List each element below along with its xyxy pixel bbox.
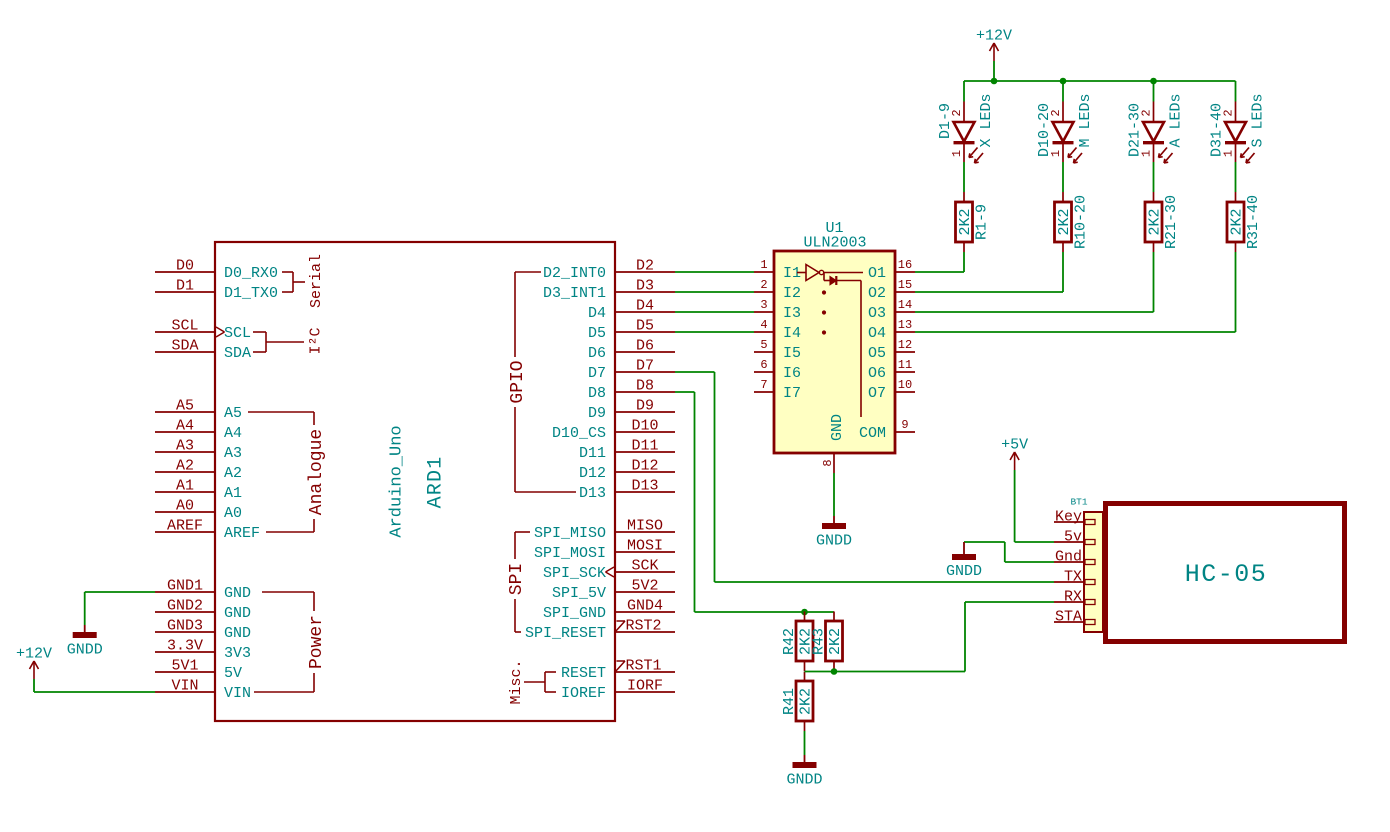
svg-text:D5: D5 (588, 325, 606, 342)
svg-text:SCL: SCL (171, 318, 198, 335)
svg-text:HC-05: HC-05 (1185, 560, 1268, 589)
svg-text:R21-30: R21-30 (1163, 195, 1180, 249)
svg-text:BT1: BT1 (1070, 497, 1087, 508)
svg-text:RESET: RESET (561, 665, 606, 682)
svg-text:A5: A5 (224, 405, 242, 422)
svg-text:5v: 5v (1064, 529, 1082, 546)
svg-text:GPIO: GPIO (508, 360, 528, 403)
svg-text:2K2: 2K2 (827, 628, 844, 655)
svg-text:D7: D7 (588, 365, 606, 382)
svg-text:R31-40: R31-40 (1245, 195, 1262, 249)
svg-text:+12V: +12V (16, 646, 52, 663)
svg-text:D1-9: D1-9 (937, 103, 954, 139)
svg-text:D3: D3 (636, 278, 654, 295)
svg-text:D4: D4 (636, 298, 654, 315)
svg-text:D0_RX0: D0_RX0 (224, 265, 278, 282)
svg-text:A4: A4 (224, 425, 242, 442)
svg-text:SCK: SCK (631, 558, 658, 575)
svg-text:2K2: 2K2 (797, 688, 814, 715)
svg-text:I²C: I²C (307, 327, 324, 354)
svg-text:A1: A1 (224, 485, 242, 502)
svg-text:A0: A0 (176, 498, 194, 515)
svg-text:D9: D9 (588, 405, 606, 422)
svg-text:VIN: VIN (224, 685, 251, 702)
svg-text:A5: A5 (176, 398, 194, 415)
svg-text:SPI_MISO: SPI_MISO (534, 525, 606, 542)
svg-text:SPI_5V: SPI_5V (552, 585, 606, 602)
svg-text:6: 6 (760, 358, 767, 372)
svg-text:2K2: 2K2 (1146, 208, 1163, 235)
svg-text:GNDD: GNDD (946, 563, 982, 580)
svg-text:SDA: SDA (224, 345, 251, 362)
svg-text:D12: D12 (579, 465, 606, 482)
svg-text:MOSI: MOSI (627, 538, 663, 555)
svg-text:A LEDs: A LEDs (1167, 93, 1184, 147)
svg-text:GND3: GND3 (167, 618, 203, 635)
svg-text:I2: I2 (783, 285, 801, 302)
svg-text:D12: D12 (631, 458, 658, 475)
svg-text:Misc.: Misc. (508, 659, 525, 704)
svg-text:D8: D8 (588, 385, 606, 402)
svg-text:D9: D9 (636, 398, 654, 415)
svg-text:TX: TX (1064, 569, 1082, 586)
svg-text:AREF: AREF (167, 518, 203, 535)
svg-text:3: 3 (760, 298, 767, 312)
svg-text:D21-30: D21-30 (1127, 103, 1144, 157)
svg-text:STA: STA (1055, 609, 1082, 626)
svg-text:SDA: SDA (171, 338, 198, 355)
svg-text:Power: Power (307, 615, 327, 669)
svg-text:VIN: VIN (171, 678, 198, 695)
svg-text:D3_INT1: D3_INT1 (543, 285, 606, 302)
svg-text:SPI_GND: SPI_GND (543, 605, 606, 622)
svg-text:ARD1: ARD1 (425, 456, 448, 509)
svg-text:D2: D2 (636, 258, 654, 275)
svg-text:R42: R42 (781, 628, 798, 655)
svg-text:MISO: MISO (627, 518, 663, 535)
svg-text:GNDD: GNDD (67, 642, 103, 659)
svg-text:SCL: SCL (224, 325, 251, 342)
svg-text:A2: A2 (176, 458, 194, 475)
svg-text:O5: O5 (868, 345, 886, 362)
svg-text:12: 12 (898, 338, 912, 352)
svg-text:IOREF: IOREF (561, 685, 606, 702)
svg-text:GND2: GND2 (167, 598, 203, 615)
svg-text:GND: GND (829, 414, 846, 441)
svg-text:D10: D10 (631, 418, 658, 435)
svg-text:16: 16 (898, 258, 912, 272)
svg-text:GND: GND (224, 625, 251, 642)
svg-text:D13: D13 (631, 478, 658, 495)
svg-text:2K2: 2K2 (1228, 208, 1245, 235)
svg-text:M LEDs: M LEDs (1077, 93, 1094, 147)
svg-text:1: 1 (950, 150, 964, 157)
svg-text:I6: I6 (783, 365, 801, 382)
svg-text:SPI: SPI (507, 563, 527, 595)
svg-text:O7: O7 (868, 385, 886, 402)
svg-text:Arduino_Uno: Arduino_Uno (388, 425, 407, 537)
svg-text:10: 10 (898, 378, 912, 392)
svg-text:3V3: 3V3 (224, 645, 251, 662)
svg-text:D31-40: D31-40 (1209, 103, 1226, 157)
svg-text:I4: I4 (783, 325, 801, 342)
svg-text:Serial: Serial (308, 254, 325, 308)
svg-text:A4: A4 (176, 418, 194, 435)
svg-text:SPI_SCK: SPI_SCK (543, 565, 606, 582)
svg-text:D7: D7 (636, 358, 654, 375)
svg-text:D11: D11 (579, 445, 606, 462)
svg-text:D8: D8 (636, 378, 654, 395)
svg-text:A1: A1 (176, 478, 194, 495)
svg-text:R41: R41 (781, 688, 798, 715)
svg-text:D1: D1 (176, 278, 194, 295)
svg-text:14: 14 (898, 298, 912, 312)
svg-text:R43: R43 (810, 628, 827, 655)
svg-text:15: 15 (898, 278, 912, 292)
svg-text:D0: D0 (176, 258, 194, 275)
svg-text:A3: A3 (176, 438, 194, 455)
svg-text:RX: RX (1064, 589, 1082, 606)
svg-text:AREF: AREF (224, 525, 260, 542)
svg-text:I1: I1 (783, 265, 801, 282)
svg-text:3.3V: 3.3V (167, 638, 203, 655)
svg-text:GND: GND (224, 585, 251, 602)
svg-text:D2_INT0: D2_INT0 (543, 265, 606, 282)
svg-text:I5: I5 (783, 345, 801, 362)
svg-text:RST1: RST1 (626, 658, 662, 675)
svg-text:A2: A2 (224, 465, 242, 482)
svg-text:+5V: +5V (1001, 437, 1028, 454)
svg-text:GNDD: GNDD (786, 772, 822, 789)
svg-text:A3: A3 (224, 445, 242, 462)
svg-text:2: 2 (760, 278, 767, 292)
svg-text:IORF: IORF (627, 678, 663, 695)
svg-text:I7: I7 (783, 385, 801, 402)
svg-text:D10-20: D10-20 (1036, 103, 1053, 157)
svg-text:D10_CS: D10_CS (552, 425, 606, 442)
svg-text:I3: I3 (783, 305, 801, 322)
svg-text:D13: D13 (579, 485, 606, 502)
svg-text:GND4: GND4 (627, 598, 663, 615)
svg-text:8: 8 (821, 459, 835, 466)
svg-text:O6: O6 (868, 365, 886, 382)
svg-text:D4: D4 (588, 305, 606, 322)
svg-text:2K2: 2K2 (957, 208, 974, 235)
svg-text:+12V: +12V (976, 28, 1012, 45)
svg-text:5V1: 5V1 (171, 658, 198, 675)
svg-text:O2: O2 (868, 285, 886, 302)
svg-text:S LEDs: S LEDs (1249, 93, 1266, 147)
svg-text:R1-9: R1-9 (973, 204, 990, 240)
svg-text:13: 13 (898, 318, 912, 332)
svg-text:A0: A0 (224, 505, 242, 522)
svg-text:O1: O1 (868, 265, 886, 282)
svg-text:11: 11 (898, 358, 912, 372)
svg-text:4: 4 (760, 318, 767, 332)
svg-text:2K2: 2K2 (1056, 208, 1073, 235)
svg-text:GND1: GND1 (167, 578, 203, 595)
svg-text:RST2: RST2 (626, 618, 662, 635)
svg-text:Key: Key (1055, 509, 1082, 526)
svg-text:R10-20: R10-20 (1072, 195, 1089, 249)
svg-text:D6: D6 (588, 345, 606, 362)
svg-text:5V2: 5V2 (631, 578, 658, 595)
svg-text:9: 9 (901, 418, 908, 432)
svg-text:Gnd: Gnd (1055, 549, 1082, 566)
svg-text:D6: D6 (636, 338, 654, 355)
svg-text:5V: 5V (224, 665, 242, 682)
svg-text:O3: O3 (868, 305, 886, 322)
svg-text:O4: O4 (868, 325, 886, 342)
svg-text:SPI_RESET: SPI_RESET (525, 625, 606, 642)
svg-text:D1_TX0: D1_TX0 (224, 285, 278, 302)
svg-text:GNDD: GNDD (816, 533, 852, 550)
svg-text:GND: GND (224, 605, 251, 622)
svg-text:7: 7 (760, 378, 767, 392)
svg-text:Analogue: Analogue (307, 429, 327, 515)
svg-text:SPI_MOSI: SPI_MOSI (534, 545, 606, 562)
svg-text:1: 1 (760, 258, 767, 272)
svg-text:D5: D5 (636, 318, 654, 335)
svg-text:X LEDs: X LEDs (978, 93, 995, 147)
svg-text:D11: D11 (631, 438, 658, 455)
svg-text:ULN2003: ULN2003 (803, 235, 866, 252)
svg-text:COM: COM (859, 425, 886, 442)
svg-text:5: 5 (760, 338, 767, 352)
